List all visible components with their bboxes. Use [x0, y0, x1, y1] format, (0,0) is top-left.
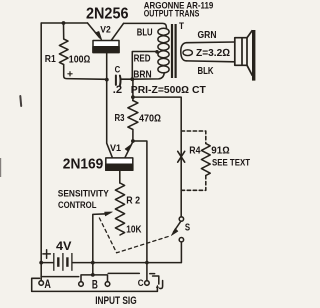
transformer secondary small loop	[183, 50, 192, 56]
resistor R3 zigzag	[128, 101, 138, 142]
transformer secondary left cap	[181, 43, 187, 61]
terminal B left	[79, 282, 84, 287]
resistor R3 top lead	[132, 79, 134, 100]
node RED tap dot	[155, 50, 159, 54]
switch S bottom contact	[179, 238, 183, 242]
svg-text:R1: R1	[45, 54, 56, 65]
svg-text:SENSITIVITY: SENSITIVITY	[58, 188, 110, 199]
terminal C	[145, 281, 150, 286]
svg-text:B: B	[92, 279, 98, 291]
transformer T primary winding loops	[158, 28, 169, 73]
svg-text:10K: 10K	[126, 224, 142, 235]
resistor R1	[59, 23, 68, 76]
node R1 top junction	[62, 21, 66, 25]
wire V2-base node down to V1 collector	[107, 80, 113, 158]
svg-text:91Ω: 91Ω	[211, 146, 230, 157]
terminal B right	[105, 282, 110, 287]
wire R3-top junction to switch line	[133, 97, 181, 217]
wire GRN to speaker	[187, 41, 235, 44]
svg-text:SEE TEXT: SEE TEXT	[212, 158, 250, 168]
pot wiper arrow	[93, 213, 107, 216]
bracket J hook	[160, 281, 163, 289]
resistor R4 zigzag	[201, 144, 210, 176]
wire V2 base down to junction	[106, 53, 108, 80]
wire A-bar	[41, 276, 78, 278]
stray mark left edge tick	[19, 96, 22, 106]
jumper X cut mark	[178, 151, 185, 162]
wire left rail	[40, 23, 42, 263]
svg-text:CONTROL: CONTROL	[58, 200, 97, 211]
wire RED center tap	[132, 52, 156, 80]
svg-text:.2: .2	[113, 84, 122, 96]
transistor V1 body	[106, 158, 133, 170]
svg-text:100Ω: 100Ω	[69, 54, 91, 66]
svg-text:T: T	[179, 21, 184, 32]
node C riser/battery wire crossing	[145, 261, 149, 265]
svg-text:GRN: GRN	[198, 30, 217, 41]
svg-text:R3: R3	[115, 113, 125, 124]
svg-text:C: C	[138, 278, 144, 288]
bracket input enclosure	[32, 278, 158, 291]
wire C tick	[150, 273, 155, 275]
node RED/BRN/cap junction	[130, 77, 134, 81]
svg-text:2N256: 2N256	[86, 6, 129, 23]
transformer core	[172, 24, 176, 78]
switch S blade with arrow	[174, 222, 181, 232]
svg-text:V1: V1	[110, 143, 121, 153]
svg-text:INPUT SIG: INPUT SIG	[95, 295, 137, 307]
svg-text:BRN: BRN	[133, 69, 151, 80]
svg-text:470Ω: 470Ω	[139, 113, 161, 125]
wire B to C segment	[108, 272, 139, 274]
switch S top contact	[179, 217, 183, 221]
bracket right of C	[153, 276, 159, 284]
svg-text:RED: RED	[134, 54, 151, 65]
svg-text:S: S	[185, 222, 190, 233]
resistor R4 dashed lead top	[181, 131, 206, 144]
transistor V1 emitter lead with arrow	[125, 142, 133, 158]
svg-text:C: C	[115, 65, 121, 75]
wire capacitor right to transformer junction	[121, 78, 132, 80]
wire B-bar with corner drops	[81, 275, 108, 282]
node R3 bottom junction	[131, 139, 135, 143]
transistor V2 body	[93, 41, 119, 53]
stray mark far left edge	[0, 158, 1, 177]
svg-text:2N169: 2N169	[63, 155, 104, 172]
linkage dashed line	[99, 218, 168, 253]
battery B1 plates	[54, 253, 72, 271]
speaker LS frame	[235, 30, 253, 75]
resistor R2 zigzag	[115, 183, 124, 235]
transformer T BLU lead	[124, 23, 167, 28]
node capacitor-left junction	[105, 78, 109, 82]
node R3/switch-wire junction	[131, 95, 135, 99]
svg-text:A: A	[44, 279, 51, 291]
node rail/battery/A junction	[39, 261, 43, 265]
transistor V2 emitter lead with arrow	[88, 23, 100, 38]
svg-text:OUTPUT TRANS: OUTPUT TRANS	[144, 9, 200, 20]
transistor V2 collector lead	[111, 23, 123, 40]
wire switch bottom to battery wire	[72, 242, 181, 263]
svg-text:PRI-Z=500Ω CT: PRI-Z=500Ω CT	[131, 85, 206, 96]
wire V1 base lead	[119, 170, 121, 183]
terminal A	[39, 281, 44, 286]
speaker cone mouth bar	[252, 30, 255, 81]
polarity + mark near R1 bottom	[68, 72, 72, 76]
svg-text:V2: V2	[100, 24, 111, 34]
wire BLK to speaker	[187, 60, 235, 63]
svg-text:BLU: BLU	[137, 28, 153, 39]
wire top rail	[41, 22, 87, 24]
capacitor C plates	[116, 76, 121, 86]
resistor R4 dashed lead bottom	[181, 176, 206, 191]
svg-text:R 2: R 2	[126, 195, 140, 206]
svg-text:4V: 4V	[56, 239, 72, 253]
bracket end arrow	[156, 285, 159, 288]
wire battery to left rail	[41, 262, 53, 264]
wire wiper drop to B-bar	[92, 215, 94, 275]
wire terminal A riser	[40, 263, 42, 281]
battery + polarity mark	[43, 250, 50, 258]
svg-text:R4: R4	[189, 146, 201, 157]
node B-bar junction	[91, 273, 95, 277]
svg-text:BLK: BLK	[198, 66, 214, 77]
node wiper/battery-wire junction	[91, 261, 95, 265]
wire R3-bottom to terminal C riser	[133, 141, 147, 281]
svg-text:Z=3.2Ω: Z=3.2Ω	[196, 47, 230, 59]
wire BRN lead	[132, 73, 164, 80]
